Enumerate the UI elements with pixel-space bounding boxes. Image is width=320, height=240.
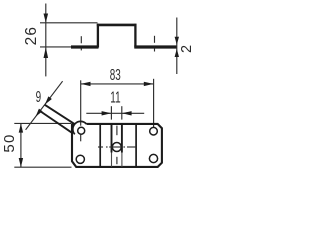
dimension 26 top arrowhead xyxy=(44,14,49,23)
extension/center line right hole column xyxy=(153,79,155,127)
profile hat right wall xyxy=(134,24,136,48)
dimension 83 right arrowhead xyxy=(144,82,154,86)
dimension 50 line xyxy=(20,123,22,167)
dimension 83 left arrowhead xyxy=(81,82,91,86)
dimension 2 top arrowhead xyxy=(175,37,179,45)
middle hole horizontal centerline xyxy=(98,146,103,148)
dimension 50 extension top xyxy=(14,122,71,124)
tab upper edge xyxy=(45,105,75,124)
extension line bottom (26) xyxy=(40,46,72,48)
channel band left line xyxy=(111,124,113,153)
dimension 9 arrowhead lower xyxy=(36,109,43,117)
profile hat top xyxy=(97,24,137,27)
svg-text:83: 83 xyxy=(110,65,121,83)
hole bottom-left xyxy=(76,155,84,163)
dimension 2 line xyxy=(176,18,178,75)
profile left flange xyxy=(71,45,99,48)
hole bottom-right xyxy=(149,154,157,162)
channel base left line xyxy=(99,124,101,167)
dimension 9 line xyxy=(26,81,63,130)
dimension 11 right arrowhead xyxy=(122,111,132,115)
profile right flange xyxy=(134,45,177,48)
dimension 50 bottom arrowhead xyxy=(19,158,23,167)
svg-text:11: 11 xyxy=(110,88,120,106)
dimension 11 extension lines xyxy=(110,106,112,119)
dimension 26 bottom arrowhead xyxy=(44,47,49,58)
tab tip arc xyxy=(73,121,87,134)
svg-text:26: 26 xyxy=(23,26,40,46)
middle hole vertical centerline xyxy=(116,126,118,136)
dimension 50 extension bottom xyxy=(14,166,71,168)
dimension 26 line xyxy=(45,4,47,77)
dimension 9 arrowhead upper xyxy=(45,96,52,104)
hole top-left (tab hole) xyxy=(78,127,85,134)
svg-text:50: 50 xyxy=(1,134,18,153)
extension line top (26) xyxy=(40,22,98,24)
dimension 2 bottom arrowhead xyxy=(175,49,179,57)
plate outline xyxy=(72,124,162,167)
extension/center line left hole column xyxy=(80,80,82,125)
hole middle xyxy=(112,143,121,152)
dimension 50 top arrowhead xyxy=(19,123,23,132)
centerline tick left column (elevation) xyxy=(80,36,82,43)
hole top-right xyxy=(150,127,158,135)
tab lower edge xyxy=(39,110,73,133)
svg-text:2: 2 xyxy=(179,45,195,53)
svg-text:9: 9 xyxy=(36,87,42,105)
dimension 11 line xyxy=(86,112,144,114)
dimension 11 left arrowhead xyxy=(102,111,112,115)
channel base right line xyxy=(135,124,137,167)
profile hat left wall xyxy=(97,24,99,48)
channel band right line xyxy=(121,124,123,153)
centerline tick right column (elevation) xyxy=(154,36,156,43)
dimension 83 line xyxy=(81,83,154,85)
